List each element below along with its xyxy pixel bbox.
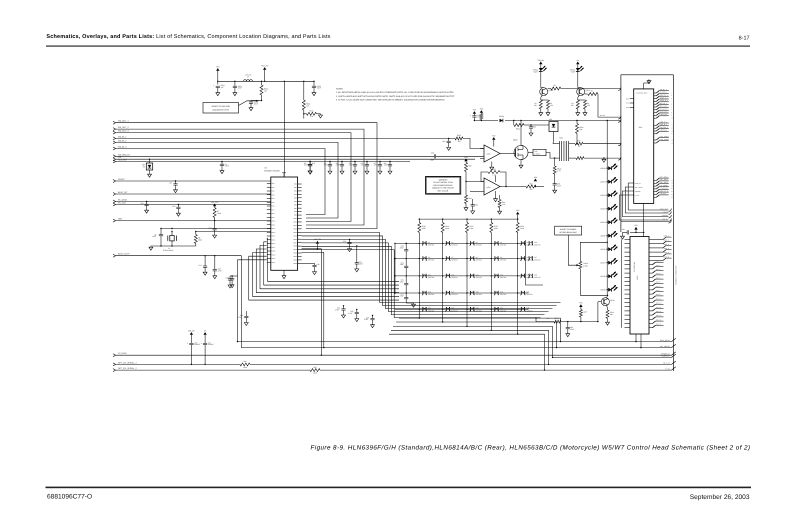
capacitor C17 (204, 256, 206, 266)
wire matrix row 1 (395, 242, 522, 244)
U520 right pins (649, 239, 663, 241)
svg-text:8-17: 8-17 (739, 35, 750, 41)
svg-text:U500: U500 (487, 153, 491, 156)
svg-text:16: 16 (671, 142, 673, 144)
svg-text:CR524: CR524 (600, 221, 605, 224)
ground (214, 234, 216, 235)
connector pin (618, 143, 621, 146)
svg-text:C8: C8 (169, 182, 171, 185)
LED CR522 (607, 195, 608, 196)
ground (229, 284, 231, 285)
wire net PROG* (113, 180, 116, 182)
zener VR500 (149, 159, 151, 163)
power +5V arrow (579, 304, 582, 307)
capacitor C40 (189, 342, 193, 344)
wire matrix top rail (419, 218, 517, 220)
callout arrow to JU500 (568, 235, 576, 265)
LED CR527 (607, 262, 608, 263)
resistor base Q511 (585, 93, 588, 95)
LED CR529 (607, 289, 608, 290)
svg-text:R507: R507 (577, 140, 581, 143)
svg-text:47NF: 47NF (218, 269, 222, 272)
resistor R518 (240, 363, 250, 367)
ground (204, 271, 206, 272)
switch S13 (470, 274, 472, 278)
wire vertical rail B (303, 81, 305, 100)
svg-text:DO NOT INSTALL JP500: DO NOT INSTALL JP500 (433, 181, 453, 184)
capacitor C9 (160, 229, 162, 235)
capacitor C41 (203, 342, 207, 344)
capacitor C22 (230, 275, 238, 277)
svg-text:OPT_CH_SERIAL_1: OPT_CH_SERIAL_1 (118, 361, 137, 364)
transformer T500 (553, 143, 560, 145)
capacitor C20 (349, 239, 351, 242)
ground (313, 92, 315, 93)
wire audio rail (474, 120, 498, 122)
svg-text:Q500: Q500 (513, 138, 517, 141)
svg-text:W5_IN_3: W5_IN_3 (118, 146, 127, 149)
callout warning box (426, 177, 461, 195)
svg-text:47NF: 47NF (238, 316, 242, 319)
wire vertical rail A (283, 81, 285, 177)
ground (341, 170, 343, 171)
op-amp U500B (484, 178, 500, 195)
resistor R502 (302, 100, 305, 110)
svg-text:10: 10 (578, 145, 580, 148)
transistor Q511 (577, 88, 585, 96)
svg-text:U52: U52 (549, 118, 552, 121)
svg-text:47NF: 47NF (225, 165, 229, 168)
ground (245, 321, 247, 322)
svg-text:CR521: CR521 (600, 180, 605, 183)
power arrow SW_B+ (190, 332, 193, 335)
wire (151, 245, 196, 247)
ground (356, 268, 358, 269)
svg-text:R64: R64 (243, 360, 246, 363)
svg-text:C15: C15 (312, 162, 315, 165)
svg-text:15: 15 (671, 139, 673, 141)
svg-text:C12: C12 (172, 205, 175, 208)
capacitor C506 (472, 199, 474, 205)
wire net W5_OUT_2 (113, 128, 116, 130)
U1 left pins (267, 183, 271, 185)
wire matrix row 4 (395, 292, 529, 294)
svg-text:WITH POWER APPLIED.: WITH POWER APPLIED. (433, 184, 453, 187)
ground (177, 212, 179, 213)
power +5V_PU arrow (316, 241, 319, 244)
svg-text:47NF: 47NF (384, 164, 388, 167)
svg-text:13: 13 (671, 130, 673, 132)
wire bus matrix bottom wrap (399, 317, 419, 319)
svg-text:W5_OUT_3: W5_OUT_3 (118, 130, 129, 133)
display driver U520 (630, 237, 649, 335)
ground (577, 112, 579, 113)
ground (221, 170, 223, 171)
capacitor C501 (234, 81, 236, 86)
svg-text:CR529: CR529 (600, 288, 605, 291)
wire matrix row stubs (522, 242, 526, 244)
switch S15 (520, 274, 522, 278)
svg-text:Q511: Q511 (586, 89, 590, 92)
svg-text:DATA_IN: DATA_IN (635, 183, 641, 185)
svg-text:DIAGNOSTIC TEST: DIAGNOSTIC TEST (212, 108, 230, 111)
svg-text:UBI*: UBI* (118, 218, 122, 221)
wire (500, 186, 526, 188)
ground (530, 132, 532, 133)
callout box SHORT TO ENABLE (555, 226, 582, 235)
svg-text:47NF: 47NF (361, 164, 365, 167)
svg-text:21: 21 (671, 191, 673, 193)
svg-text:47NF: 47NF (317, 87, 321, 90)
svg-text:W5_OUT_2: W5_OUT_2 (118, 126, 129, 129)
svg-text:WARNING: WARNING (439, 178, 448, 181)
wire net PC_DATA (113, 200, 116, 202)
svg-text:September 26, 2003: September 26, 2003 (690, 494, 750, 501)
switch S12 (445, 274, 447, 278)
wire matrix row 3 (395, 275, 522, 277)
transistor Q510 (540, 88, 548, 96)
ground (372, 324, 374, 325)
wire net UBI* (113, 219, 116, 221)
switch S17 (445, 291, 447, 295)
svg-text:W5_IN_1: W5_IN_1 (118, 135, 127, 138)
svg-text:C58: C58 (475, 203, 478, 206)
ground (547, 112, 549, 113)
ground (540, 112, 542, 113)
resistor R509 (554, 164, 556, 167)
svg-text:J500: J500 (639, 126, 643, 129)
resistor emitter pair Q511 (578, 95, 579, 97)
capacitor C52 inline (434, 154, 435, 158)
power arrow A+ (203, 332, 206, 335)
capacitor C12 (177, 205, 179, 208)
ground U1 (283, 270, 285, 274)
ground (379, 170, 381, 171)
svg-text:P_CLK: P_CLK (635, 195, 640, 197)
svg-text:3. (*) PINS 7,31,37,45 ARE NOT: 3. (*) PINS 7,31,37,45 ARE NOT CONNECTED… (336, 99, 446, 102)
ground J500 top (643, 83, 645, 89)
wire matrix column 5 (517, 236, 519, 311)
svg-text:6800: 6800 (198, 239, 202, 242)
svg-text:SCK_PW: SCK_PW (118, 159, 127, 162)
capacitor C26 (372, 316, 374, 319)
callout box SHORT TO GND FOR DIAGNOSTIC TEST (203, 103, 239, 114)
svg-text:47NF: 47NF (336, 164, 340, 167)
svg-text:R65: R65 (313, 366, 316, 369)
switch S26 (528, 242, 530, 246)
capacitor C8 (389, 162, 391, 165)
wire bus net A+ (113, 369, 116, 371)
wire (302, 249, 322, 355)
LED CR526 (607, 249, 608, 250)
ground (349, 247, 351, 248)
wire LED anode rail (606, 121, 608, 296)
power +5V arrow (516, 212, 519, 215)
resistor R507 (575, 142, 583, 145)
LED CR524 (607, 222, 608, 223)
svg-text:C56: C56 (442, 140, 445, 143)
wire net W5_IN_1 (113, 137, 116, 139)
resistor R123 (490, 219, 492, 222)
inductor L50 box (528, 152, 533, 154)
ground (366, 170, 368, 171)
switch S11 (422, 274, 424, 278)
transistor Q512 (601, 298, 609, 306)
capacitor C6 (366, 162, 368, 165)
wire bus net C-DATA (553, 356, 672, 358)
capacitor C73 (404, 297, 408, 299)
junction dots (283, 161, 285, 163)
wire J500 bottom pin (643, 203, 645, 236)
ground (499, 210, 501, 211)
svg-text:T500: T500 (559, 137, 563, 140)
svg-text:2. SHIFT-LOADED BUS SHIFT WITH: 2. SHIFT-LOADED BUS SHIFT WITH ASSOCIATE… (336, 95, 455, 98)
svg-text:20: 20 (671, 188, 673, 190)
capacitor C502 (249, 101, 253, 103)
svg-text:47NF: 47NF (335, 309, 339, 312)
svg-text:VOL_SEND: VOL_SEND (635, 187, 643, 189)
ground (217, 92, 219, 93)
connector pin (618, 119, 621, 122)
svg-text:19: 19 (671, 185, 673, 187)
mosfet Q500 (514, 146, 528, 160)
capacitor C21 (356, 246, 358, 263)
wire net VIP (113, 158, 116, 160)
wire keypad backlight drive (535, 318, 537, 322)
LED CR521 (607, 181, 608, 182)
ground (554, 189, 556, 190)
resistor R515 (554, 320, 561, 323)
svg-text:PC_DATA: PC_DATA (118, 199, 128, 202)
switch S1 (422, 242, 424, 246)
switch S23 (470, 307, 472, 311)
ground (234, 92, 236, 93)
svg-text:CR525: CR525 (600, 234, 605, 237)
switch S24 (494, 307, 496, 311)
capacitor C505 (553, 183, 557, 185)
wire U520 bottom stubs (635, 334, 637, 342)
capacitor C507 (567, 322, 569, 328)
svg-text:1. ALL RESISTORS ARE IN OHMS (: 1. ALL RESISTORS ARE IN OHMS (K=1,000) U… (336, 91, 454, 94)
capacitor C504 (221, 162, 223, 165)
ground (149, 173, 151, 174)
svg-text:Figure 8-9. HLN6396F/G/H (Stan: Figure 8-9. HLN6396F/G/H (Standard),HLN6… (311, 444, 751, 451)
svg-text:R1: R1 (591, 90, 593, 93)
LED CR512 (539, 68, 543, 71)
svg-text:ST_ROW: ST_ROW (118, 352, 127, 355)
svg-text:CR527: CR527 (600, 261, 605, 264)
svg-text:XMIT: XMIT (571, 70, 575, 73)
resistor R510 (304, 113, 307, 115)
svg-text:47NF: 47NF (324, 164, 328, 167)
svg-text:C16: C16 (316, 263, 319, 266)
resistor R124 (517, 219, 519, 222)
svg-text:Schematics, Overlays, and Part: Schematics, Overlays, and Parts Lists: L… (46, 34, 330, 40)
svg-text:C17: C17 (199, 264, 202, 267)
wire net BUSY_OUT* (113, 254, 116, 256)
capacitor C500 (216, 85, 220, 87)
resistor R518 emitter (606, 306, 609, 309)
ground (329, 170, 331, 171)
switch S27 (528, 257, 530, 261)
svg-text:+5V_PU: +5V_PU (314, 238, 322, 241)
switch S19 (494, 291, 496, 295)
ground (214, 275, 216, 276)
switch S9 (494, 257, 496, 261)
svg-text:CR522: CR522 (600, 194, 605, 197)
connector J500 left pins (630, 98, 634, 100)
switch S10 (520, 257, 522, 261)
switch S21 (422, 307, 424, 311)
wire matrix column 4 (490, 236, 492, 311)
resistor base Q510 (548, 88, 551, 90)
ground (354, 170, 356, 171)
capacitor C4 (341, 162, 343, 165)
resistor R519 (310, 368, 320, 372)
svg-text:1uF: 1uF (221, 86, 224, 89)
resistor R503 (455, 137, 463, 140)
svg-text:SHORT TO GND FOR: SHORT TO GND FOR (211, 105, 230, 108)
svg-text:W5_OUT_1: W5_OUT_1 (118, 120, 129, 123)
resistor R51 (480, 114, 483, 120)
svg-text:MC68HC705C8A: MC68HC705C8A (264, 169, 280, 172)
svg-text:SHORT TO ENABLE: SHORT TO ENABLE (560, 228, 577, 231)
svg-text:C52: C52 (431, 152, 434, 155)
capacitor C11 (146, 202, 148, 205)
resistor JU500 (579, 261, 582, 269)
svg-text:CR500: CR500 (499, 115, 504, 118)
wire backlight loop (580, 242, 607, 261)
power +5V arrow (464, 159, 467, 162)
svg-text:SW_B+: SW_B+ (538, 59, 545, 62)
LED CR528 (607, 276, 608, 277)
ground (356, 317, 358, 318)
svg-text:6881096C77-O: 6881096C77-O (47, 494, 92, 501)
resistor R122 (466, 219, 468, 222)
svg-text:R52: R52 (468, 165, 471, 168)
svg-text:DAMAGE TO THE CIRCUIT: DAMAGE TO THE CIRCUIT (432, 187, 455, 190)
wire matrix column 6 (526, 240, 544, 285)
svg-text:MAY OCCUR.: MAY OCCUR. (438, 189, 450, 192)
capacitor C5 (354, 162, 356, 165)
wire U1 top pin (283, 173, 285, 177)
svg-text:10: 10 (671, 118, 673, 120)
resistor R504 (513, 121, 515, 126)
capacitor C19 (231, 276, 233, 279)
svg-text:STROBE: STROBE (635, 191, 641, 193)
svg-text:23: 23 (671, 197, 673, 199)
switch S25 (520, 307, 522, 311)
resistor R512 (465, 163, 468, 172)
svg-text:47NF: 47NF (374, 164, 378, 167)
capacitor C18 (214, 256, 216, 270)
svg-text:R54: R54 (529, 182, 532, 185)
resistor R508 (573, 157, 576, 159)
switch S7 (445, 257, 447, 261)
svg-text:C52: C52 (533, 126, 536, 129)
crystal Y1 (171, 232, 173, 236)
ground (309, 170, 311, 171)
wire net W5_IN_3 (113, 147, 116, 149)
svg-text:KEYPAD BACKLIGHT: KEYPAD BACKLIGHT (560, 231, 578, 234)
switch S2 (445, 242, 447, 246)
wire matrix row 5 (395, 308, 529, 310)
svg-text:SW_B+: SW_B+ (188, 329, 195, 332)
wire matrix column 1 (418, 236, 420, 311)
svg-text:HLN6814A CONNECTOR: HLN6814A CONNECTOR (674, 265, 677, 285)
wire bus net BL_1 (113, 363, 116, 365)
LED CR513 (576, 68, 580, 71)
power arrow CR512 (539, 62, 542, 65)
svg-text:Q512: Q512 (610, 299, 614, 302)
svg-text:BUS+: BUS+ (534, 70, 538, 73)
capacitor C7 (379, 162, 381, 165)
resistor R513 (465, 182, 467, 196)
wire net W5_OUT_3 (113, 131, 116, 133)
capacitor C71 (404, 265, 408, 267)
wire top power rail (218, 80, 314, 82)
switch S16 (422, 291, 424, 295)
wire (161, 228, 271, 230)
ground (314, 270, 316, 271)
capacitor C24 (343, 306, 345, 309)
svg-text:R503: R503 (457, 134, 461, 137)
switch S3 (470, 242, 472, 246)
inductor L500 (244, 80, 253, 82)
svg-text:R53: R53 (492, 168, 495, 171)
ground (309, 170, 311, 171)
wire net W5_IN_2 (113, 141, 116, 143)
switch S18 (470, 291, 472, 295)
ground (343, 314, 345, 315)
switch S20 (520, 291, 522, 295)
svg-text:12: 12 (671, 128, 673, 130)
capacitor C16 (302, 262, 315, 264)
wire bus J500 to nets (628, 183, 668, 210)
svg-text:47NF: 47NF (359, 262, 363, 265)
svg-text:10uF: 10uF (557, 184, 561, 187)
switch S28 (528, 274, 530, 278)
power +5V arrow (480, 110, 483, 113)
microcontroller U1 (271, 177, 298, 270)
ground (150, 246, 152, 247)
diode CR500 (500, 119, 503, 123)
power +5V_PU arrow (263, 67, 266, 70)
power +5V_PU arrow (213, 204, 216, 207)
wire net PC_CLK (113, 203, 116, 205)
switch S5 (520, 242, 522, 246)
svg-text:1.071uH: 1.071uH (245, 74, 252, 77)
svg-text:C20: C20 (343, 240, 346, 243)
optocoupler U52 (531, 124, 549, 126)
ground (146, 209, 148, 210)
svg-text:18: 18 (671, 183, 673, 185)
ground (622, 235, 624, 236)
svg-text:CR526: CR526 (600, 248, 605, 251)
resistor R7 (213, 208, 216, 218)
svg-text:1000uF: 1000uF (194, 343, 200, 346)
wire matrix column 2 (442, 236, 444, 311)
capacitor C70 (404, 249, 408, 251)
capacitor C13 (214, 221, 216, 229)
power +5V arrow (534, 179, 537, 182)
wire matrix left rail (394, 243, 396, 293)
capacitor C503 (313, 81, 315, 86)
ground (472, 210, 474, 211)
svg-text:47NF: 47NF (304, 164, 308, 167)
switch S8 (470, 257, 472, 261)
LED CR523 (607, 208, 608, 209)
